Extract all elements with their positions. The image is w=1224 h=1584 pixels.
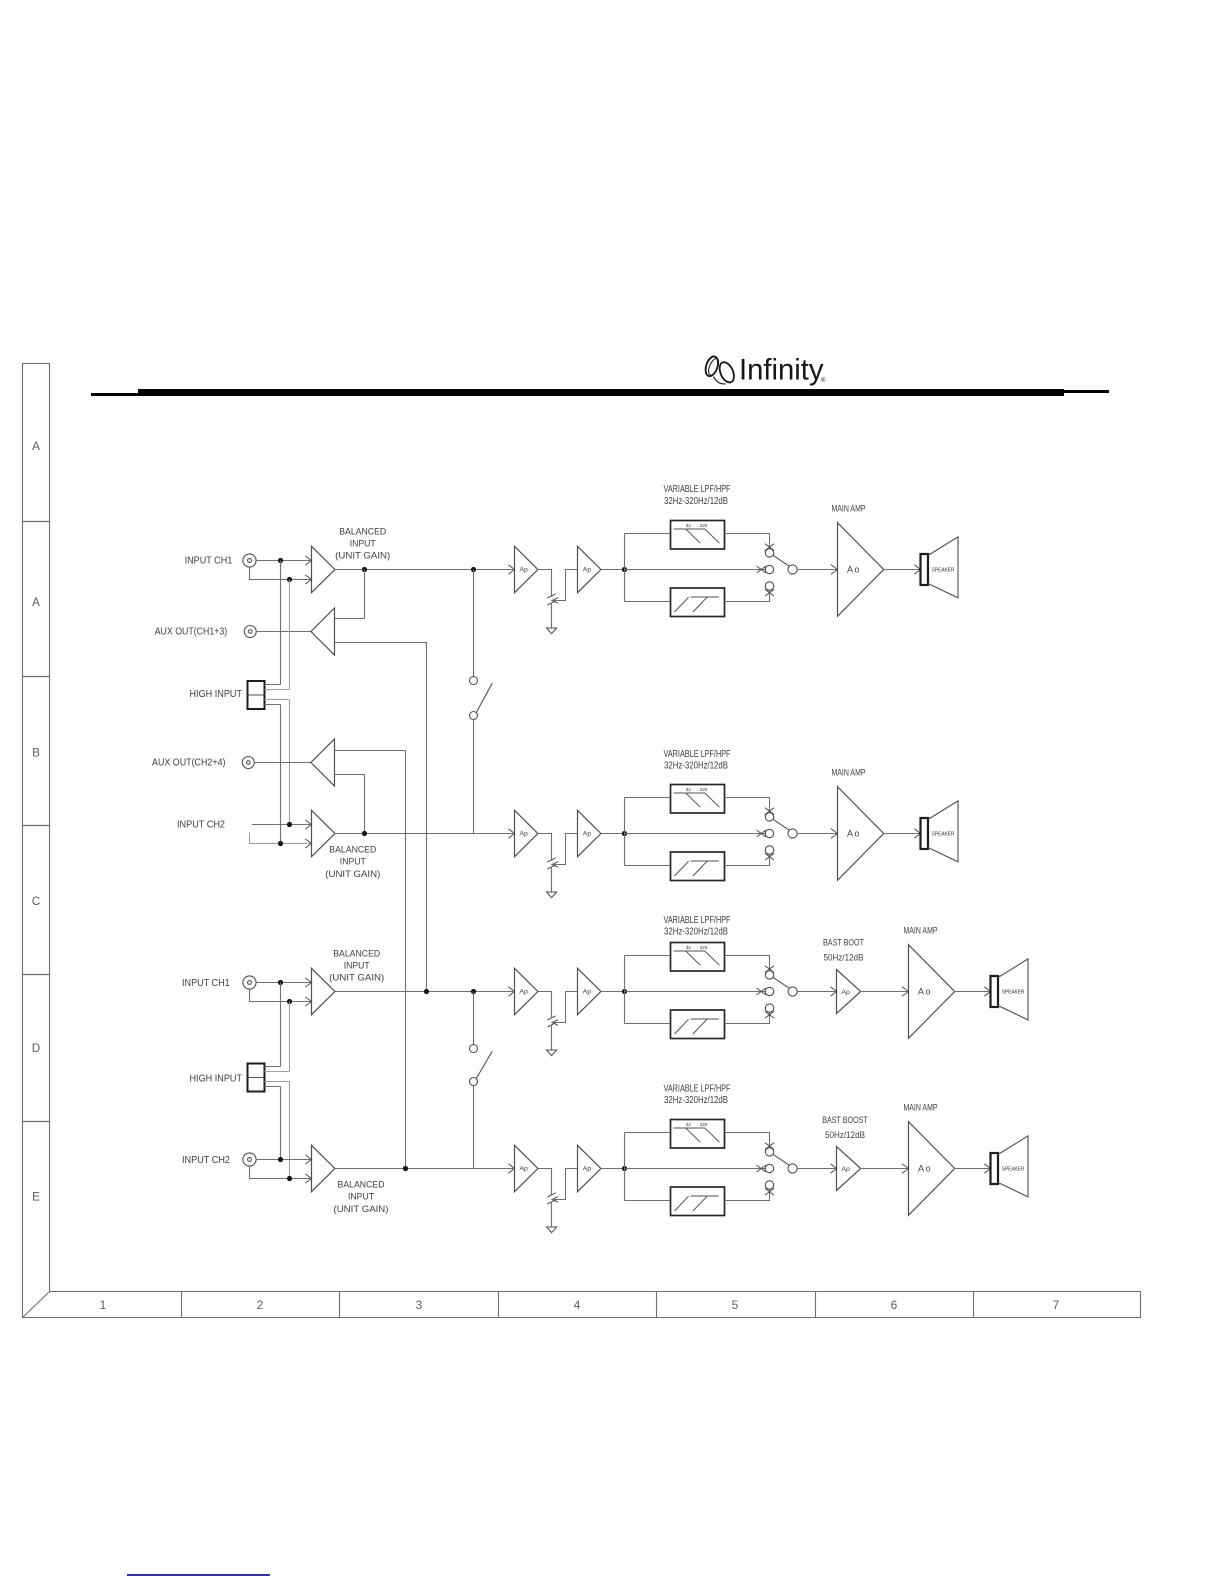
op-amp balanced-input buffer row2 — [312, 810, 335, 856]
wire input ch1 positive row1 — [256, 560, 311, 562]
switch bottom contact row2 — [765, 846, 773, 854]
svg-text:32Hz-320Hz/12dB: 32Hz-320Hz/12dB — [664, 496, 728, 507]
node switch takeoff junction row1 — [471, 567, 476, 572]
rule under logo thin right segment — [1064, 390, 1109, 393]
border left ruler strip — [23, 364, 1141, 1318]
wire pot wiper to Ap2 row4 — [552, 1169, 578, 1200]
filter LPF box row1 — [671, 521, 725, 550]
wire input ch2 positive row2 — [252, 824, 312, 826]
wire filter branch vertical row4 — [624, 1133, 626, 1201]
op-amp Ap preamp 2 row3 — [578, 968, 601, 1014]
rule under logo thick bar — [138, 389, 1064, 396]
svg-text:32: 32 — [686, 523, 692, 528]
logo Infinity symbol — [703, 355, 736, 385]
node input pos junction row3 — [278, 980, 283, 985]
wire input ch1 negative row3 — [250, 989, 312, 1001]
node input pos junction row4 — [278, 1157, 283, 1162]
switch high-input series rows1-2 — [473, 570, 475, 677]
wire input ch1 positive row3 — [256, 982, 311, 984]
svg-text:BALANCED: BALANCED — [329, 845, 376, 856]
filter HPF box row2 — [671, 852, 725, 881]
wire switch common to main amp row2 — [797, 833, 838, 835]
svg-text:Ao: Ao — [918, 987, 932, 997]
node input ch2 pos junction row2 — [287, 822, 292, 827]
svg-text:Ao: Ao — [847, 565, 861, 575]
svg-text:VARIABLE LPF/HPF: VARIABLE LPF/HPF — [664, 915, 731, 926]
wire balanced output row3 — [335, 991, 513, 993]
svg-text:Ap: Ap — [583, 831, 592, 838]
connector HIGH INPUT block rows1-2 — [248, 681, 265, 709]
border ruler column dividers — [182, 1292, 974, 1318]
HPF response icon row4 — [675, 1196, 719, 1211]
connector INPUT CH2 jack row4 — [243, 1153, 256, 1166]
svg-text:(UNIT GAIN): (UNIT GAIN) — [334, 1204, 389, 1215]
switch blade row3 — [773, 977, 790, 988]
label BALANCED INPUT (UNIT GAIN) row1 — [335, 526, 390, 561]
wire Ap2 output row1 — [601, 569, 625, 571]
svg-text:32Hz-320Hz/12dB: 32Hz-320Hz/12dB — [664, 761, 728, 772]
wire to HPF row1 — [625, 601, 671, 603]
node filter input junction row3 — [622, 989, 627, 994]
switch mid contact row1 — [757, 566, 766, 573]
label VARIABLE LPF/HPF row1 — [664, 484, 731, 507]
wire to LPF row3 — [625, 955, 671, 957]
node filter input junction row4 — [622, 1166, 627, 1171]
wire aux second input from CH3 row1 — [335, 643, 427, 992]
svg-text:50Hz/12dB: 50Hz/12dB — [825, 1130, 865, 1141]
svg-text:1: 1 — [100, 1298, 107, 1312]
op-amp Ap preamp 1 row1 — [515, 546, 538, 592]
switch mid contact row3 — [757, 988, 766, 995]
HPF response icon row3 — [675, 1019, 719, 1034]
svg-text:Infinity: Infinity — [739, 353, 824, 386]
svg-text:VARIABLE LPF/HPF: VARIABLE LPF/HPF — [664, 484, 731, 495]
wire to speaker row1 — [914, 565, 920, 574]
filter HPF box row3 — [671, 1010, 725, 1039]
svg-text:32: 32 — [686, 1122, 692, 1127]
op-amp Ap preamp 1 row3 — [515, 968, 538, 1014]
wire filter branch vertical row3 — [624, 956, 626, 1024]
wire main amp to speaker row2 — [884, 833, 921, 835]
wire to LPF row1 — [625, 533, 671, 535]
wire input ch2 positive row4 — [256, 1159, 311, 1161]
svg-text:(UNIT GAIN): (UNIT GAIN) — [325, 869, 380, 880]
node input ch2 neg junction row2 — [278, 841, 283, 846]
svg-text:320: 320 — [700, 787, 708, 792]
wire high input pin2 rows1-2 — [265, 580, 290, 690]
wire to HPF row4 — [625, 1200, 671, 1202]
wire balanced output row1 — [335, 569, 513, 571]
svg-text:Ap: Ap — [583, 989, 592, 996]
ground row2 — [547, 892, 557, 898]
svg-text:HIGH INPUT: HIGH INPUT — [190, 1074, 243, 1085]
wire switch common to bass boost row4 — [797, 1168, 837, 1170]
node input ch1 pos junction row1 — [278, 558, 283, 563]
svg-text:Ap: Ap — [519, 831, 528, 838]
switch top contact row4 — [765, 1143, 774, 1150]
wire LPF to switch top contact row4 — [725, 1133, 770, 1148]
wire aux output to jack row1 — [256, 631, 311, 633]
svg-text:32: 32 — [686, 945, 692, 950]
svg-text:MAIN AMP: MAIN AMP — [904, 926, 938, 937]
LPF response icon row1 — [674, 529, 720, 543]
wire main amp to speaker row3 — [955, 991, 991, 993]
filter LPF box row2 — [671, 785, 725, 814]
wire Ap1 output to level pot row1 — [538, 570, 552, 596]
op-amp balanced-input buffer row4 — [312, 1145, 335, 1191]
speaker row1 — [921, 554, 929, 585]
connector AUX OUT(CH2+4) jack — [242, 757, 254, 769]
speaker row2 — [921, 818, 929, 849]
switch top contact row2 — [765, 808, 774, 815]
ground row1 — [547, 628, 557, 634]
label BALANCED INPUT (UNIT GAIN) row3 — [329, 948, 384, 983]
wire main amp to speaker row4 — [955, 1168, 991, 1170]
svg-text:VARIABLE LPF/HPF: VARIABLE LPF/HPF — [664, 1084, 731, 1095]
svg-text:BAST BOOST: BAST BOOST — [822, 1115, 868, 1126]
border ruler mitre diagonal — [23, 1292, 50, 1318]
wire to speaker row4 — [984, 1164, 990, 1173]
filter LPF box row4 — [671, 1120, 725, 1149]
svg-text:C: C — [32, 894, 41, 908]
wire HPF to switch bottom contact row4 — [725, 1189, 770, 1200]
wire high input pin1 rows3-4 — [265, 983, 281, 1067]
LPF response icon row4 — [674, 1128, 720, 1142]
switch blade row2 — [773, 819, 790, 830]
wire to speaker row3 — [984, 987, 990, 996]
svg-text:AUX OUT(CH1+3): AUX OUT(CH1+3) — [155, 627, 228, 638]
svg-text:Ao: Ao — [918, 1164, 932, 1174]
svg-text:32: 32 — [686, 787, 692, 792]
LPF labels 32 320 row2 — [686, 787, 708, 792]
op-amp Ap preamp 2 row4 — [578, 1145, 601, 1191]
wire high input pin2 rows3-4 — [265, 1002, 290, 1072]
op-amp bass boost Ap row3 — [831, 987, 837, 996]
label BAST BOOT row3 — [823, 937, 864, 963]
node filter input junction row2 — [622, 831, 627, 836]
svg-text:Ap: Ap — [583, 567, 592, 574]
node input neg junction row3 — [287, 999, 292, 1004]
label VARIABLE LPF/HPF row2 — [664, 749, 731, 772]
op-amp balanced-input buffer row1 — [312, 546, 335, 592]
wire balanced output row2 — [335, 833, 513, 835]
svg-text:SPEAKER: SPEAKER — [1002, 990, 1025, 996]
node filter input junction row1 — [622, 567, 627, 572]
switch mid contact row4 — [757, 1165, 766, 1172]
svg-text:2: 2 — [257, 1298, 264, 1312]
op-amp bass boost Ap row4 — [831, 1164, 837, 1173]
amplifier main amp Ao row2 — [831, 829, 838, 839]
op-amp Ap preamp 2 row1 — [578, 546, 601, 592]
wire balanced output row4 — [335, 1168, 513, 1170]
svg-text:INPUT: INPUT — [350, 538, 376, 549]
wire aux feedback down row1 — [335, 570, 365, 619]
svg-text:(UNIT GAIN): (UNIT GAIN) — [329, 972, 384, 983]
node aux feedback junction row2 — [362, 831, 367, 836]
wire to LPF row4 — [625, 1132, 671, 1134]
wire HPF to switch bottom contact row1 — [725, 590, 770, 601]
wire high input pin3 rows1-2 — [265, 700, 290, 825]
wire LPF to switch top contact row2 — [725, 798, 770, 813]
svg-text:SPEAKER: SPEAKER — [932, 568, 955, 574]
svg-text:A: A — [32, 595, 40, 609]
svg-text:6: 6 — [891, 1298, 898, 1312]
switch bottom contact row4 — [765, 1181, 773, 1189]
wire high input pin1 rows1-2 — [265, 561, 281, 685]
svg-text:MAIN AMP: MAIN AMP — [904, 1103, 938, 1114]
wire Ap2 output row4 — [601, 1168, 625, 1170]
wire high input pin3 rows3-4 — [265, 1082, 290, 1179]
ground row4 — [547, 1227, 557, 1233]
connector INPUT CH1 jack row3 — [243, 976, 256, 989]
switch blade row4 — [773, 1154, 790, 1165]
potentiometer level control row2 — [547, 858, 555, 869]
svg-text:4: 4 — [574, 1298, 581, 1312]
svg-text:50Hz/12dB: 50Hz/12dB — [824, 952, 864, 963]
ruler letters A A B C D E — [32, 439, 41, 1203]
svg-text:INPUT CH2: INPUT CH2 — [177, 820, 225, 831]
wire to LPF row2 — [625, 797, 671, 799]
svg-text:320: 320 — [700, 523, 708, 528]
switch high-input series rows3-4 — [473, 992, 475, 1045]
wire input ch2 negative row2 — [250, 833, 312, 844]
LPF response icon row2 — [674, 793, 720, 807]
connector INPUT CH1 jack row1 — [243, 554, 256, 567]
node aux takeoff junction row4 — [403, 1166, 408, 1171]
svg-text:INPUT: INPUT — [340, 857, 366, 868]
svg-text:32Hz-320Hz/12dB: 32Hz-320Hz/12dB — [664, 1095, 728, 1106]
wire pot wiper to Ap2 row1 — [552, 570, 578, 601]
wire LPF to switch top contact row1 — [725, 534, 770, 549]
HPF response icon row1 — [675, 597, 719, 612]
wire aux output to jack row2 — [254, 762, 311, 764]
wire to switch mid contact row1 — [625, 569, 766, 571]
switch bottom contact row1 — [765, 582, 773, 590]
svg-text:Ap: Ap — [841, 989, 850, 996]
svg-text:BALANCED: BALANCED — [338, 1180, 385, 1191]
label BALANCED INPUT (UNIT GAIN) row2 — [325, 845, 380, 880]
wire input ch1 negative row1 — [250, 567, 312, 579]
wire HPF to switch bottom contact row3 — [725, 1012, 770, 1023]
node aux takeoff junction row3 — [424, 989, 429, 994]
svg-text:VARIABLE LPF/HPF: VARIABLE LPF/HPF — [664, 749, 731, 760]
ruler numbers 1-7 — [100, 1298, 1060, 1312]
op-amp aux sum buffer row2 AUX CH2+4 — [311, 739, 335, 786]
wire HPF to switch bottom contact row2 — [725, 854, 770, 865]
svg-text:Ap: Ap — [519, 1166, 528, 1173]
svg-text:(UNIT GAIN): (UNIT GAIN) — [335, 550, 390, 561]
wire filter branch vertical row1 — [624, 534, 626, 602]
svg-text:Ao: Ao — [847, 829, 861, 839]
switch bottom contact row3 — [765, 1004, 773, 1012]
svg-text:BALANCED: BALANCED — [333, 948, 380, 959]
node input ch1 neg junction row1 — [287, 577, 292, 582]
svg-text:INPUT CH2: INPUT CH2 — [182, 1155, 230, 1166]
wire to speaker row2 — [914, 829, 920, 838]
op-amp aux sum buffer row1 AUX CH1+3 — [311, 608, 335, 655]
wire aux first input from CH4 row2 — [335, 751, 406, 1169]
rule under logo thin left segment — [91, 393, 138, 396]
filter LPF box row3 — [671, 943, 725, 972]
switch common row3 — [788, 987, 797, 996]
filter HPF box row1 — [671, 588, 725, 617]
switch top contact row3 — [765, 966, 774, 973]
switch blade row1 — [773, 555, 790, 566]
wire to switch mid contact row4 — [625, 1168, 766, 1170]
label VARIABLE LPF/HPF row3 — [664, 915, 731, 938]
wire switch common to main amp row1 — [797, 569, 838, 571]
amplifier main amp Ao row1 — [831, 565, 838, 575]
wire to switch mid contact row2 — [625, 833, 766, 835]
wire LPF to switch top contact row3 — [725, 956, 770, 971]
wire bass boost to main amp row3 — [861, 991, 909, 993]
svg-text:Ap: Ap — [841, 1166, 850, 1173]
svg-text:E: E — [32, 1190, 40, 1204]
svg-text:INPUT CH1: INPUT CH1 — [182, 978, 230, 989]
potentiometer level control row3 — [547, 1016, 555, 1027]
wire main amp to speaker row1 — [884, 569, 921, 571]
svg-text:320: 320 — [700, 945, 708, 950]
svg-text:SPEAKER: SPEAKER — [932, 832, 955, 838]
svg-text:®: ® — [821, 377, 826, 384]
node input neg junction row4 — [287, 1176, 292, 1181]
op-amp Ap preamp 1 row2 — [515, 810, 538, 856]
wire to HPF row2 — [625, 865, 671, 867]
connector HIGH INPUT block rows3-4 — [248, 1064, 265, 1092]
HPF response icon row2 — [675, 861, 719, 876]
svg-text:SPEAKER: SPEAKER — [1002, 1167, 1025, 1173]
border ruler row dividers — [23, 522, 50, 1122]
node switch takeoff junction row3 — [471, 989, 476, 994]
switch common row1 — [788, 565, 797, 574]
link underline bottom — [127, 1574, 270, 1576]
potentiometer level control row1 — [547, 594, 555, 605]
wire to switch mid contact row3 — [625, 991, 766, 993]
filter HPF box row4 — [671, 1187, 725, 1216]
LPF labels 32 320 row4 — [686, 1122, 708, 1127]
LPF response icon row3 — [674, 951, 720, 965]
wire aux second input feedback row2 — [335, 775, 365, 834]
wire to HPF row3 — [625, 1023, 671, 1025]
svg-text:Ap: Ap — [519, 989, 528, 996]
label BALANCED INPUT (UNIT GAIN) row4 — [334, 1180, 389, 1215]
wire high input pin4 rows3-4 — [265, 1087, 281, 1160]
LPF labels 32 320 row3 — [686, 945, 708, 950]
wire Ap1 output to level pot row3 — [538, 992, 552, 1018]
svg-text:A: A — [32, 439, 40, 453]
switch mid contact row2 — [757, 830, 766, 837]
svg-text:INPUT: INPUT — [344, 960, 370, 971]
op-amp Ap preamp 1 row4 — [515, 1145, 538, 1191]
svg-text:INPUT: INPUT — [348, 1192, 374, 1203]
svg-text:Ap: Ap — [519, 567, 528, 574]
wire pot wiper to Ap2 row2 — [552, 834, 578, 865]
potentiometer level control row4 — [547, 1193, 555, 1204]
speaker row3 — [991, 976, 999, 1007]
amplifier main amp Ao row4 — [902, 1164, 909, 1174]
svg-text:Ap: Ap — [583, 1166, 592, 1173]
wire high input pin4 rows1-2 — [265, 705, 281, 844]
svg-text:AUX OUT(CH2+4): AUX OUT(CH2+4) — [152, 758, 226, 769]
svg-text:INPUT CH1: INPUT CH1 — [185, 556, 233, 567]
op-amp balanced-input buffer row3 — [312, 968, 335, 1014]
svg-text:B: B — [32, 745, 40, 759]
switch top contact row1 — [765, 544, 774, 551]
svg-text:HIGH INPUT: HIGH INPUT — [190, 689, 243, 700]
connector AUX OUT(CH1+3) jack — [244, 626, 256, 638]
svg-text:32Hz-320Hz/12dB: 32Hz-320Hz/12dB — [664, 927, 728, 938]
switch common row4 — [788, 1164, 797, 1173]
label BAST BOOST row4 — [822, 1115, 868, 1141]
wire pot wiper to Ap2 row3 — [552, 992, 578, 1023]
svg-text:3: 3 — [416, 1298, 423, 1312]
wire switch common to bass boost row3 — [797, 991, 837, 993]
svg-text:BAST BOOT: BAST BOOT — [823, 937, 864, 948]
wire bass boost to main amp row4 — [861, 1168, 909, 1170]
wire filter branch vertical row2 — [624, 798, 626, 866]
switch common row2 — [788, 829, 797, 838]
wire input ch2 negative row4 — [250, 1166, 312, 1178]
node balanced output junction row1 — [362, 567, 367, 572]
svg-text:BALANCED: BALANCED — [339, 526, 386, 537]
svg-text:MAIN AMP: MAIN AMP — [832, 504, 866, 515]
svg-text:5: 5 — [732, 1298, 739, 1312]
svg-text:D: D — [32, 1041, 41, 1055]
op-amp Ap preamp 2 row2 — [578, 810, 601, 856]
svg-text:320: 320 — [700, 1122, 708, 1127]
speaker row4 — [991, 1153, 999, 1184]
svg-text:7: 7 — [1053, 1298, 1060, 1312]
wire Ap1 output to level pot row2 — [538, 834, 552, 860]
wire Ap2 output row3 — [601, 991, 625, 993]
wire Ap2 output row2 — [601, 833, 625, 835]
label VARIABLE LPF/HPF row4 — [664, 1084, 731, 1107]
amplifier main amp Ao row3 — [902, 987, 909, 997]
wire Ap1 output to level pot row4 — [538, 1169, 552, 1195]
ground row3 — [547, 1050, 557, 1056]
LPF labels 32 320 row1 — [686, 523, 708, 528]
svg-text:MAIN AMP: MAIN AMP — [832, 768, 866, 779]
